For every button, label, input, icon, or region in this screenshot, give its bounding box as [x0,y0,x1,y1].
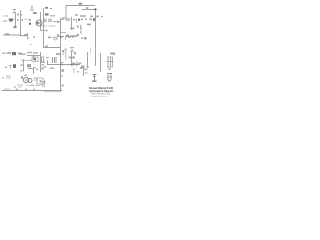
svg-text:Service Data Inc.: Service Data Inc. [91,95,108,98]
svg-text:Schematic 6 Tube AC: Schematic 6 Tube AC [89,89,114,93]
